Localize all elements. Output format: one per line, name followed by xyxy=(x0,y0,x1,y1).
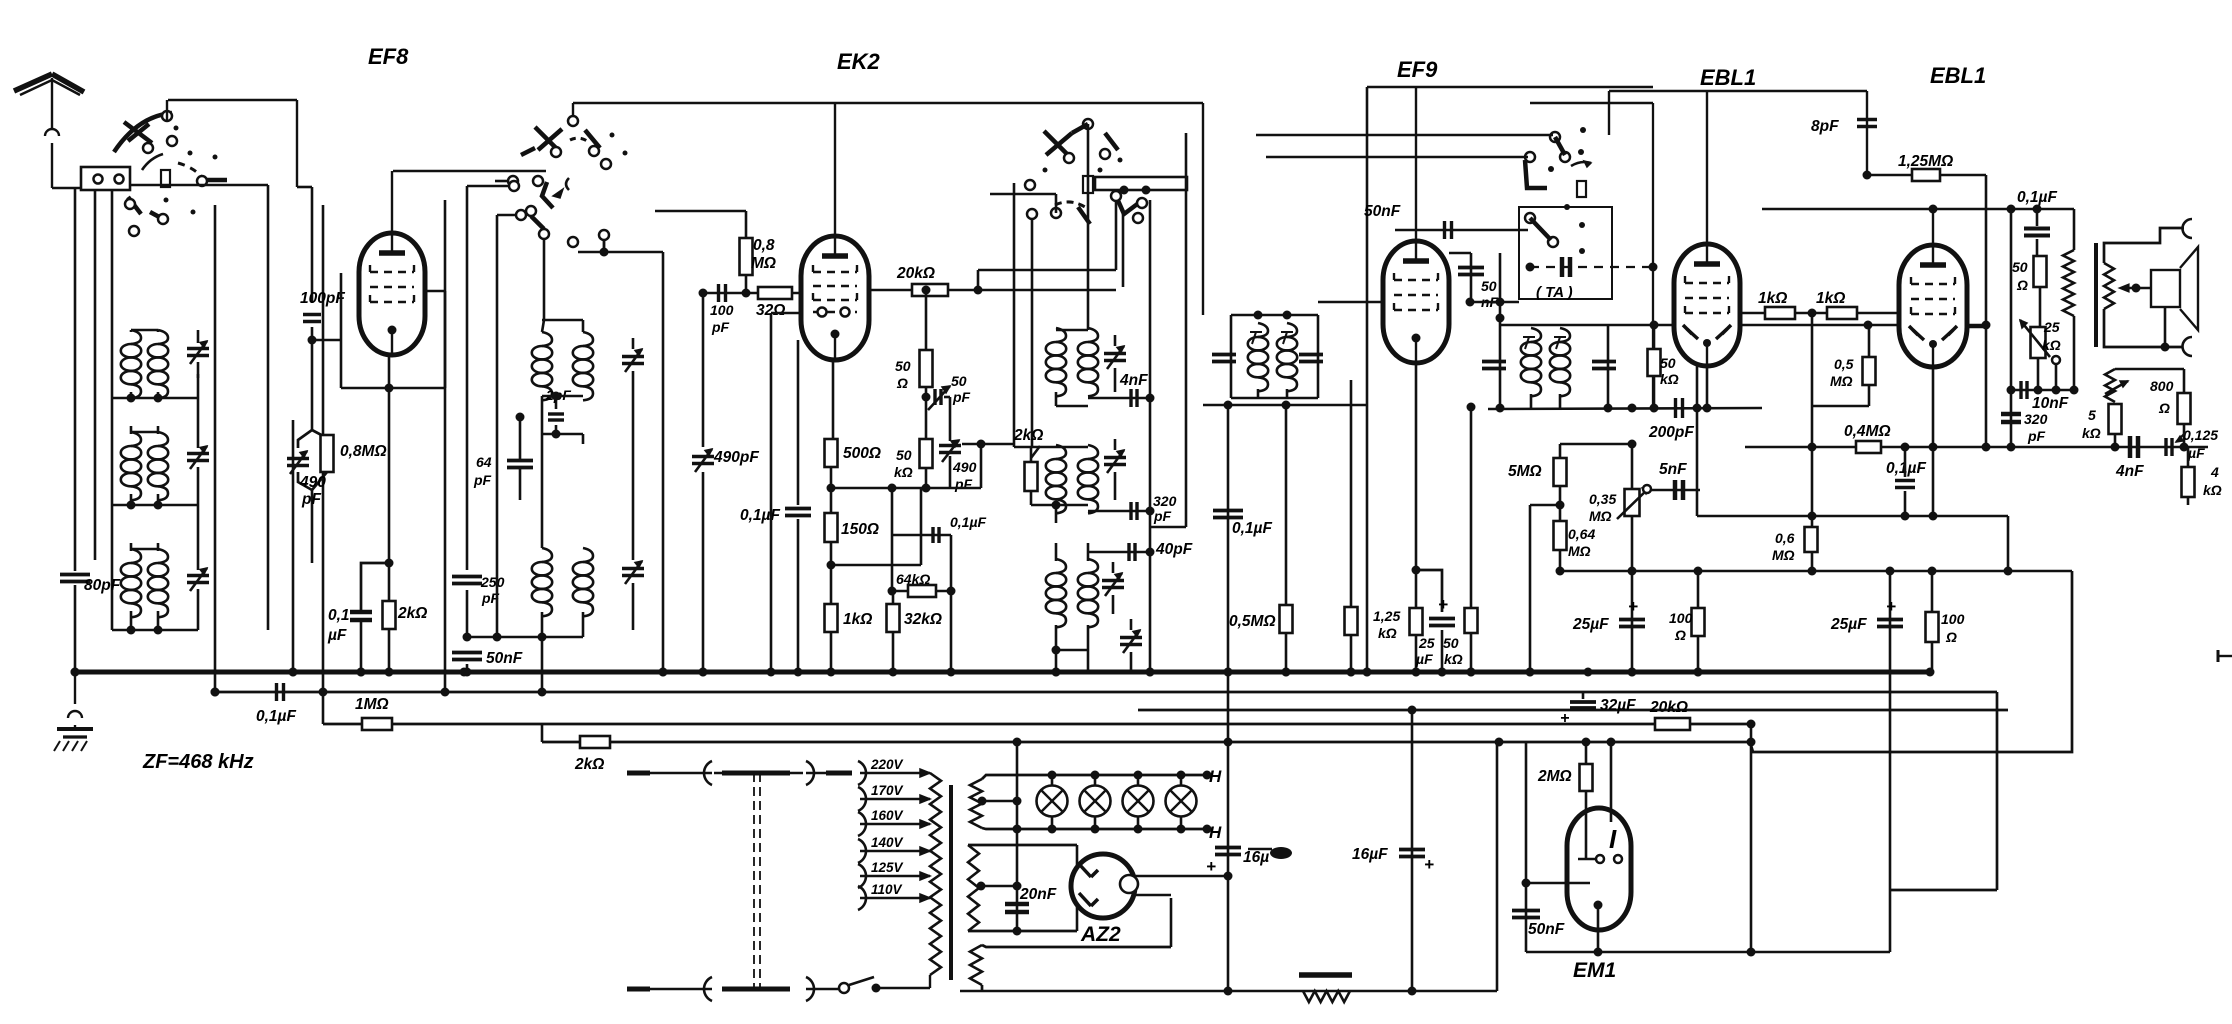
svg-text:500Ω: 500Ω xyxy=(843,445,881,462)
svg-text:Ω: Ω xyxy=(896,375,908,391)
svg-text:pF: pF xyxy=(2027,428,2046,444)
svg-text:0,4MΩ: 0,4MΩ xyxy=(1844,423,1891,440)
svg-text:1,25: 1,25 xyxy=(1373,608,1400,624)
svg-text:Ω: Ω xyxy=(2016,277,2028,293)
svg-text:50: 50 xyxy=(895,358,911,374)
svg-text:1,25MΩ: 1,25MΩ xyxy=(1898,153,1953,170)
svg-text:kΩ: kΩ xyxy=(1444,651,1463,667)
svg-text:MΩ: MΩ xyxy=(751,255,776,272)
svg-text:1kΩ: 1kΩ xyxy=(1816,290,1845,307)
svg-text:0,125: 0,125 xyxy=(2183,427,2218,443)
svg-text:320: 320 xyxy=(2024,411,2048,427)
svg-text:5: 5 xyxy=(2088,407,2096,423)
svg-text:0,64: 0,64 xyxy=(1568,526,1595,542)
svg-text:AZ2: AZ2 xyxy=(1080,923,1121,946)
svg-text:0,5: 0,5 xyxy=(1834,356,1854,372)
svg-text:50: 50 xyxy=(1481,278,1497,294)
svg-text:20nF: 20nF xyxy=(1019,886,1057,903)
svg-text:32µF: 32µF xyxy=(1600,697,1636,714)
svg-text:0,1µF: 0,1µF xyxy=(950,514,987,530)
svg-text:kΩ: kΩ xyxy=(894,464,913,480)
svg-text:0,1: 0,1 xyxy=(328,607,350,624)
svg-text:490: 490 xyxy=(299,474,326,491)
svg-text:1kΩ: 1kΩ xyxy=(1758,290,1787,307)
svg-text:2kΩ: 2kΩ xyxy=(397,605,427,622)
svg-text:125V: 125V xyxy=(871,860,904,875)
svg-text:25µF: 25µF xyxy=(1830,616,1867,633)
svg-text:110V: 110V xyxy=(871,882,903,897)
svg-text:µF: µF xyxy=(327,627,347,644)
svg-text:pF: pF xyxy=(473,472,492,488)
svg-text:MΩ: MΩ xyxy=(1830,373,1853,389)
svg-text:5MΩ: 5MΩ xyxy=(1508,463,1542,480)
svg-text:MΩ: MΩ xyxy=(1568,543,1591,559)
svg-text:H: H xyxy=(1209,823,1222,842)
svg-text:25: 25 xyxy=(1418,635,1435,651)
svg-text:µF: µF xyxy=(2187,445,2205,461)
svg-text:250: 250 xyxy=(480,574,505,590)
svg-text:20kΩ: 20kΩ xyxy=(896,265,935,282)
svg-text:+: + xyxy=(1886,597,1896,616)
svg-text:4nF: 4nF xyxy=(2115,463,2144,480)
svg-text:160V: 160V xyxy=(871,808,904,823)
svg-text:pF: pF xyxy=(711,319,730,335)
svg-text:50: 50 xyxy=(2012,259,2028,275)
svg-text:64: 64 xyxy=(476,454,492,470)
svg-text:kΩ: kΩ xyxy=(2203,482,2222,498)
svg-text:16µ: 16µ xyxy=(1243,849,1269,866)
svg-text:25: 25 xyxy=(2043,319,2060,335)
svg-text:EM1: EM1 xyxy=(1573,959,1616,982)
svg-text:50nF: 50nF xyxy=(486,650,523,667)
svg-text:MΩ: MΩ xyxy=(1589,508,1612,524)
svg-text:100: 100 xyxy=(1669,610,1693,626)
svg-text:64kΩ: 64kΩ xyxy=(896,571,930,587)
svg-text:I: I xyxy=(1609,824,1617,854)
svg-text:5nF: 5nF xyxy=(1659,461,1687,478)
svg-text:0,5MΩ: 0,5MΩ xyxy=(1229,613,1276,630)
svg-text:kΩ: kΩ xyxy=(2082,425,2101,441)
svg-text:2kΩ: 2kΩ xyxy=(574,756,604,773)
svg-text:pF: pF xyxy=(1153,508,1172,524)
svg-text:4: 4 xyxy=(2210,464,2219,480)
svg-text:40pF: 40pF xyxy=(1155,541,1193,558)
svg-text:+: + xyxy=(1560,710,1569,727)
svg-text:0,6: 0,6 xyxy=(1775,530,1795,546)
svg-text:50: 50 xyxy=(1443,635,1459,651)
svg-text:H: H xyxy=(1209,767,1222,786)
svg-text:+: + xyxy=(1206,857,1216,876)
svg-text:0,1µF: 0,1µF xyxy=(256,708,296,725)
svg-text:kΩ: kΩ xyxy=(1660,371,1679,387)
svg-text:80pF: 80pF xyxy=(84,577,121,594)
svg-text:200pF: 200pF xyxy=(1648,424,1694,441)
svg-text:20kΩ: 20kΩ xyxy=(1649,699,1688,716)
svg-text:µF: µF xyxy=(1415,651,1433,667)
svg-text:50nF: 50nF xyxy=(1364,203,1401,220)
svg-text:Ω: Ω xyxy=(1945,629,1957,645)
svg-text:MΩ: MΩ xyxy=(1772,547,1795,563)
svg-text:100pF: 100pF xyxy=(300,290,345,307)
svg-text:50: 50 xyxy=(951,373,967,389)
svg-text:100: 100 xyxy=(1941,611,1965,627)
svg-text:Ω: Ω xyxy=(2158,400,2170,416)
svg-text:EBL1: EBL1 xyxy=(1930,63,1986,88)
svg-text:150Ω: 150Ω xyxy=(841,521,879,538)
svg-text:1MΩ: 1MΩ xyxy=(355,696,389,713)
svg-text:4nF: 4nF xyxy=(1119,372,1148,389)
svg-text:490: 490 xyxy=(952,459,977,475)
svg-text:50nF: 50nF xyxy=(1528,921,1565,938)
svg-text:1kΩ: 1kΩ xyxy=(843,611,872,628)
svg-text:170V: 170V xyxy=(871,783,904,798)
svg-text:pF: pF xyxy=(952,389,971,405)
svg-text:320: 320 xyxy=(1153,493,1177,509)
svg-text:100: 100 xyxy=(710,302,734,318)
svg-text:0,1µF: 0,1µF xyxy=(2017,189,2057,206)
svg-text:220V: 220V xyxy=(870,757,904,772)
svg-text:2MΩ: 2MΩ xyxy=(1537,768,1572,785)
svg-text:pF: pF xyxy=(301,491,321,508)
svg-text:kΩ: kΩ xyxy=(1378,625,1397,641)
svg-text:140V: 140V xyxy=(871,835,904,850)
svg-text:0,8MΩ: 0,8MΩ xyxy=(340,443,387,460)
svg-text:EF9: EF9 xyxy=(1397,57,1438,82)
svg-text:0,8: 0,8 xyxy=(753,237,775,254)
svg-text:2kΩ: 2kΩ xyxy=(1013,427,1043,444)
svg-text:0,1µF: 0,1µF xyxy=(740,507,780,524)
svg-text:EK2: EK2 xyxy=(837,49,881,74)
svg-text:10nF: 10nF xyxy=(2032,395,2069,412)
svg-text:25µF: 25µF xyxy=(1572,616,1609,633)
svg-text:+: + xyxy=(1438,595,1448,614)
svg-text:0,1µF: 0,1µF xyxy=(1232,520,1272,537)
svg-text:50: 50 xyxy=(896,447,912,463)
svg-text:800: 800 xyxy=(2150,378,2174,394)
svg-text:kΩ: kΩ xyxy=(2042,337,2061,353)
svg-text:0,35: 0,35 xyxy=(1589,491,1616,507)
svg-text:EBL1: EBL1 xyxy=(1700,65,1756,90)
svg-text:ZF=468 kHz: ZF=468 kHz xyxy=(142,751,254,773)
svg-text:EF8: EF8 xyxy=(368,44,409,69)
svg-text:32kΩ: 32kΩ xyxy=(904,611,942,628)
svg-text:16µF: 16µF xyxy=(1352,846,1388,863)
svg-text:+: + xyxy=(1424,855,1434,874)
svg-text:Ω: Ω xyxy=(1674,627,1686,643)
svg-text:+: + xyxy=(1628,597,1638,616)
svg-text:8pF: 8pF xyxy=(1811,118,1839,135)
svg-text:490pF: 490pF xyxy=(713,449,759,466)
svg-text:pF: pF xyxy=(954,476,973,492)
svg-text:( TA ): ( TA ) xyxy=(1536,284,1573,301)
svg-text:50: 50 xyxy=(1660,355,1676,371)
